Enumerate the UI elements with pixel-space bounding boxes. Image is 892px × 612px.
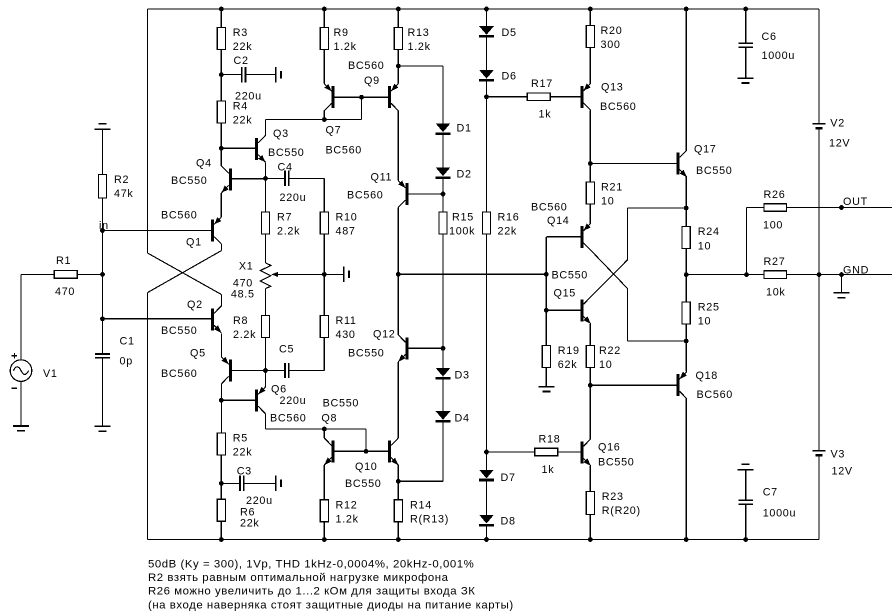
svg-text:220u: 220u — [280, 192, 307, 204]
svg-text:R5: R5 — [233, 433, 248, 445]
svg-text:R27: R27 — [764, 256, 786, 268]
svg-text:D4: D4 — [455, 413, 470, 425]
svg-text:V3: V3 — [831, 449, 846, 461]
svg-text:12V: 12V — [829, 138, 850, 150]
svg-text:1000u: 1000u — [763, 508, 797, 520]
svg-text:47k: 47k — [114, 188, 134, 200]
svg-text:1000u: 1000u — [762, 50, 796, 62]
svg-text:1.2k: 1.2k — [408, 41, 431, 53]
svg-text:R16: R16 — [498, 212, 520, 224]
svg-text:BC560: BC560 — [697, 389, 734, 401]
svg-text:R25: R25 — [698, 301, 720, 313]
svg-text:BC560: BC560 — [161, 210, 198, 222]
svg-text:C3: C3 — [237, 466, 252, 478]
svg-text:1k: 1k — [539, 109, 552, 121]
svg-text:D6: D6 — [502, 71, 517, 83]
svg-text:Q2: Q2 — [187, 299, 203, 311]
svg-text:R1: R1 — [56, 255, 71, 267]
svg-text:Q16: Q16 — [598, 442, 621, 454]
svg-text:62k: 62k — [558, 359, 578, 371]
svg-text:BC560: BC560 — [347, 190, 384, 202]
svg-text:R14: R14 — [410, 499, 432, 511]
svg-text:Q17: Q17 — [694, 144, 717, 156]
svg-text:V2: V2 — [830, 118, 845, 130]
svg-text:Q1: Q1 — [186, 237, 202, 249]
svg-text:Q6: Q6 — [271, 384, 287, 396]
svg-text:D5: D5 — [502, 27, 517, 39]
svg-text:C6: C6 — [762, 31, 777, 43]
svg-text:10k: 10k — [766, 287, 786, 299]
svg-text:0p: 0p — [120, 356, 133, 368]
svg-text:100k: 100k — [449, 226, 475, 238]
svg-text:D1: D1 — [457, 123, 472, 135]
svg-text:22k: 22k — [233, 41, 253, 53]
svg-text:R22: R22 — [599, 345, 621, 357]
svg-text:R10: R10 — [336, 212, 358, 224]
svg-text:D8: D8 — [501, 516, 516, 528]
svg-text:10: 10 — [698, 316, 711, 328]
svg-text:BC560: BC560 — [531, 202, 568, 214]
svg-text:BC550: BC550 — [268, 147, 305, 159]
svg-text:BC560: BC560 — [600, 101, 637, 113]
svg-text:Q18: Q18 — [696, 370, 719, 382]
svg-text:C7: C7 — [763, 487, 778, 499]
svg-text:220u: 220u — [280, 395, 307, 407]
svg-text:Q14: Q14 — [547, 215, 570, 227]
svg-text:OUT: OUT — [843, 196, 868, 208]
svg-text:BC560: BC560 — [270, 413, 307, 425]
svg-text:Q12: Q12 — [373, 329, 396, 341]
svg-text:430: 430 — [336, 329, 356, 341]
svg-text:Q11: Q11 — [371, 172, 393, 184]
svg-text:2.2k: 2.2k — [277, 226, 300, 238]
svg-text:Q4: Q4 — [196, 158, 212, 170]
svg-text:R12: R12 — [336, 499, 358, 511]
svg-text:BC550: BC550 — [323, 398, 360, 410]
svg-text:R24: R24 — [698, 226, 720, 238]
svg-text:10: 10 — [601, 196, 614, 208]
svg-text:R2: R2 — [114, 174, 129, 186]
svg-text:R(R20): R(R20) — [602, 505, 641, 517]
svg-text:V1: V1 — [43, 368, 58, 380]
svg-text:220u: 220u — [246, 495, 273, 507]
svg-text:D3: D3 — [455, 370, 470, 382]
svg-text:12V: 12V — [832, 466, 853, 478]
svg-text:BC550: BC550 — [598, 457, 635, 469]
svg-text:R13: R13 — [408, 27, 430, 39]
svg-text:R19: R19 — [558, 345, 580, 357]
svg-text:C5: C5 — [279, 344, 294, 356]
svg-text:Q9: Q9 — [364, 75, 380, 87]
svg-text:R26 можно увеличить до 1...2 к: R26 можно увеличить до 1...2 кОм для защ… — [148, 586, 475, 598]
svg-text:220u: 220u — [235, 91, 262, 103]
svg-text:R23: R23 — [602, 491, 624, 503]
svg-text:470: 470 — [55, 286, 75, 298]
svg-text:487: 487 — [336, 226, 356, 238]
svg-text:BC550: BC550 — [696, 165, 733, 177]
svg-text:R17: R17 — [531, 78, 553, 90]
svg-text:D7: D7 — [501, 472, 516, 484]
svg-text:1.2k: 1.2k — [336, 514, 359, 526]
svg-text:1k: 1k — [542, 464, 555, 476]
svg-text:R15: R15 — [452, 212, 474, 224]
svg-text:R2 взять равным оптимальной на: R2 взять равным оптимальной нагрузке мик… — [148, 572, 449, 584]
svg-text:R26: R26 — [764, 189, 786, 201]
svg-text:Q10: Q10 — [355, 461, 378, 473]
svg-text:BC560: BC560 — [348, 60, 385, 72]
svg-text:R11: R11 — [336, 315, 357, 327]
svg-text:C2: C2 — [234, 55, 249, 67]
svg-text:100: 100 — [763, 219, 783, 231]
svg-text:BC550: BC550 — [171, 175, 208, 187]
svg-text:Q3: Q3 — [273, 128, 289, 140]
svg-text:R(R13): R(R13) — [410, 514, 449, 526]
svg-text:Q5: Q5 — [190, 348, 206, 360]
svg-text:10: 10 — [599, 359, 612, 371]
svg-text:C4: C4 — [278, 162, 293, 174]
svg-text:BC550: BC550 — [345, 478, 382, 490]
svg-text:Q13: Q13 — [601, 82, 624, 94]
svg-text:BC550: BC550 — [552, 270, 589, 282]
svg-text:R20: R20 — [601, 25, 623, 37]
svg-text:R18: R18 — [539, 433, 561, 445]
svg-text:BC550: BC550 — [348, 348, 385, 360]
svg-text:1.2k: 1.2k — [334, 41, 357, 53]
svg-text:22k: 22k — [233, 115, 253, 127]
svg-text:10: 10 — [698, 240, 711, 252]
svg-text:2.2k: 2.2k — [233, 329, 256, 341]
svg-text:R21: R21 — [601, 182, 623, 194]
svg-text:BC560: BC560 — [161, 368, 198, 380]
svg-text:Q15: Q15 — [554, 288, 577, 300]
svg-text:D2: D2 — [457, 169, 472, 181]
svg-text:22k: 22k — [240, 518, 260, 530]
svg-text:300: 300 — [601, 39, 621, 51]
svg-text:22k: 22k — [233, 447, 253, 459]
svg-text:Q7: Q7 — [326, 125, 342, 137]
svg-text:C1: C1 — [120, 336, 135, 348]
svg-text:48.5: 48.5 — [231, 289, 255, 301]
svg-text:22k: 22k — [498, 226, 518, 238]
svg-text:R9: R9 — [334, 27, 349, 39]
svg-text:BC550: BC550 — [161, 325, 198, 337]
svg-text:R3: R3 — [233, 27, 248, 39]
svg-text:(на входе наверняка стоят защи: (на входе наверняка стоят защитные диоды… — [148, 599, 514, 611]
svg-text:X1: X1 — [239, 261, 254, 273]
svg-text:GND: GND — [843, 265, 869, 277]
svg-text:50dB (Ky = 300), 1Vp, THD 1kHz: 50dB (Ky = 300), 1Vp, THD 1kHz-0,0004%, … — [148, 558, 474, 570]
svg-text:Q8: Q8 — [321, 413, 337, 425]
svg-text:R8: R8 — [233, 315, 248, 327]
svg-text:R7: R7 — [277, 212, 292, 224]
svg-text:in: in — [99, 220, 109, 232]
svg-text:BC560: BC560 — [326, 145, 363, 157]
